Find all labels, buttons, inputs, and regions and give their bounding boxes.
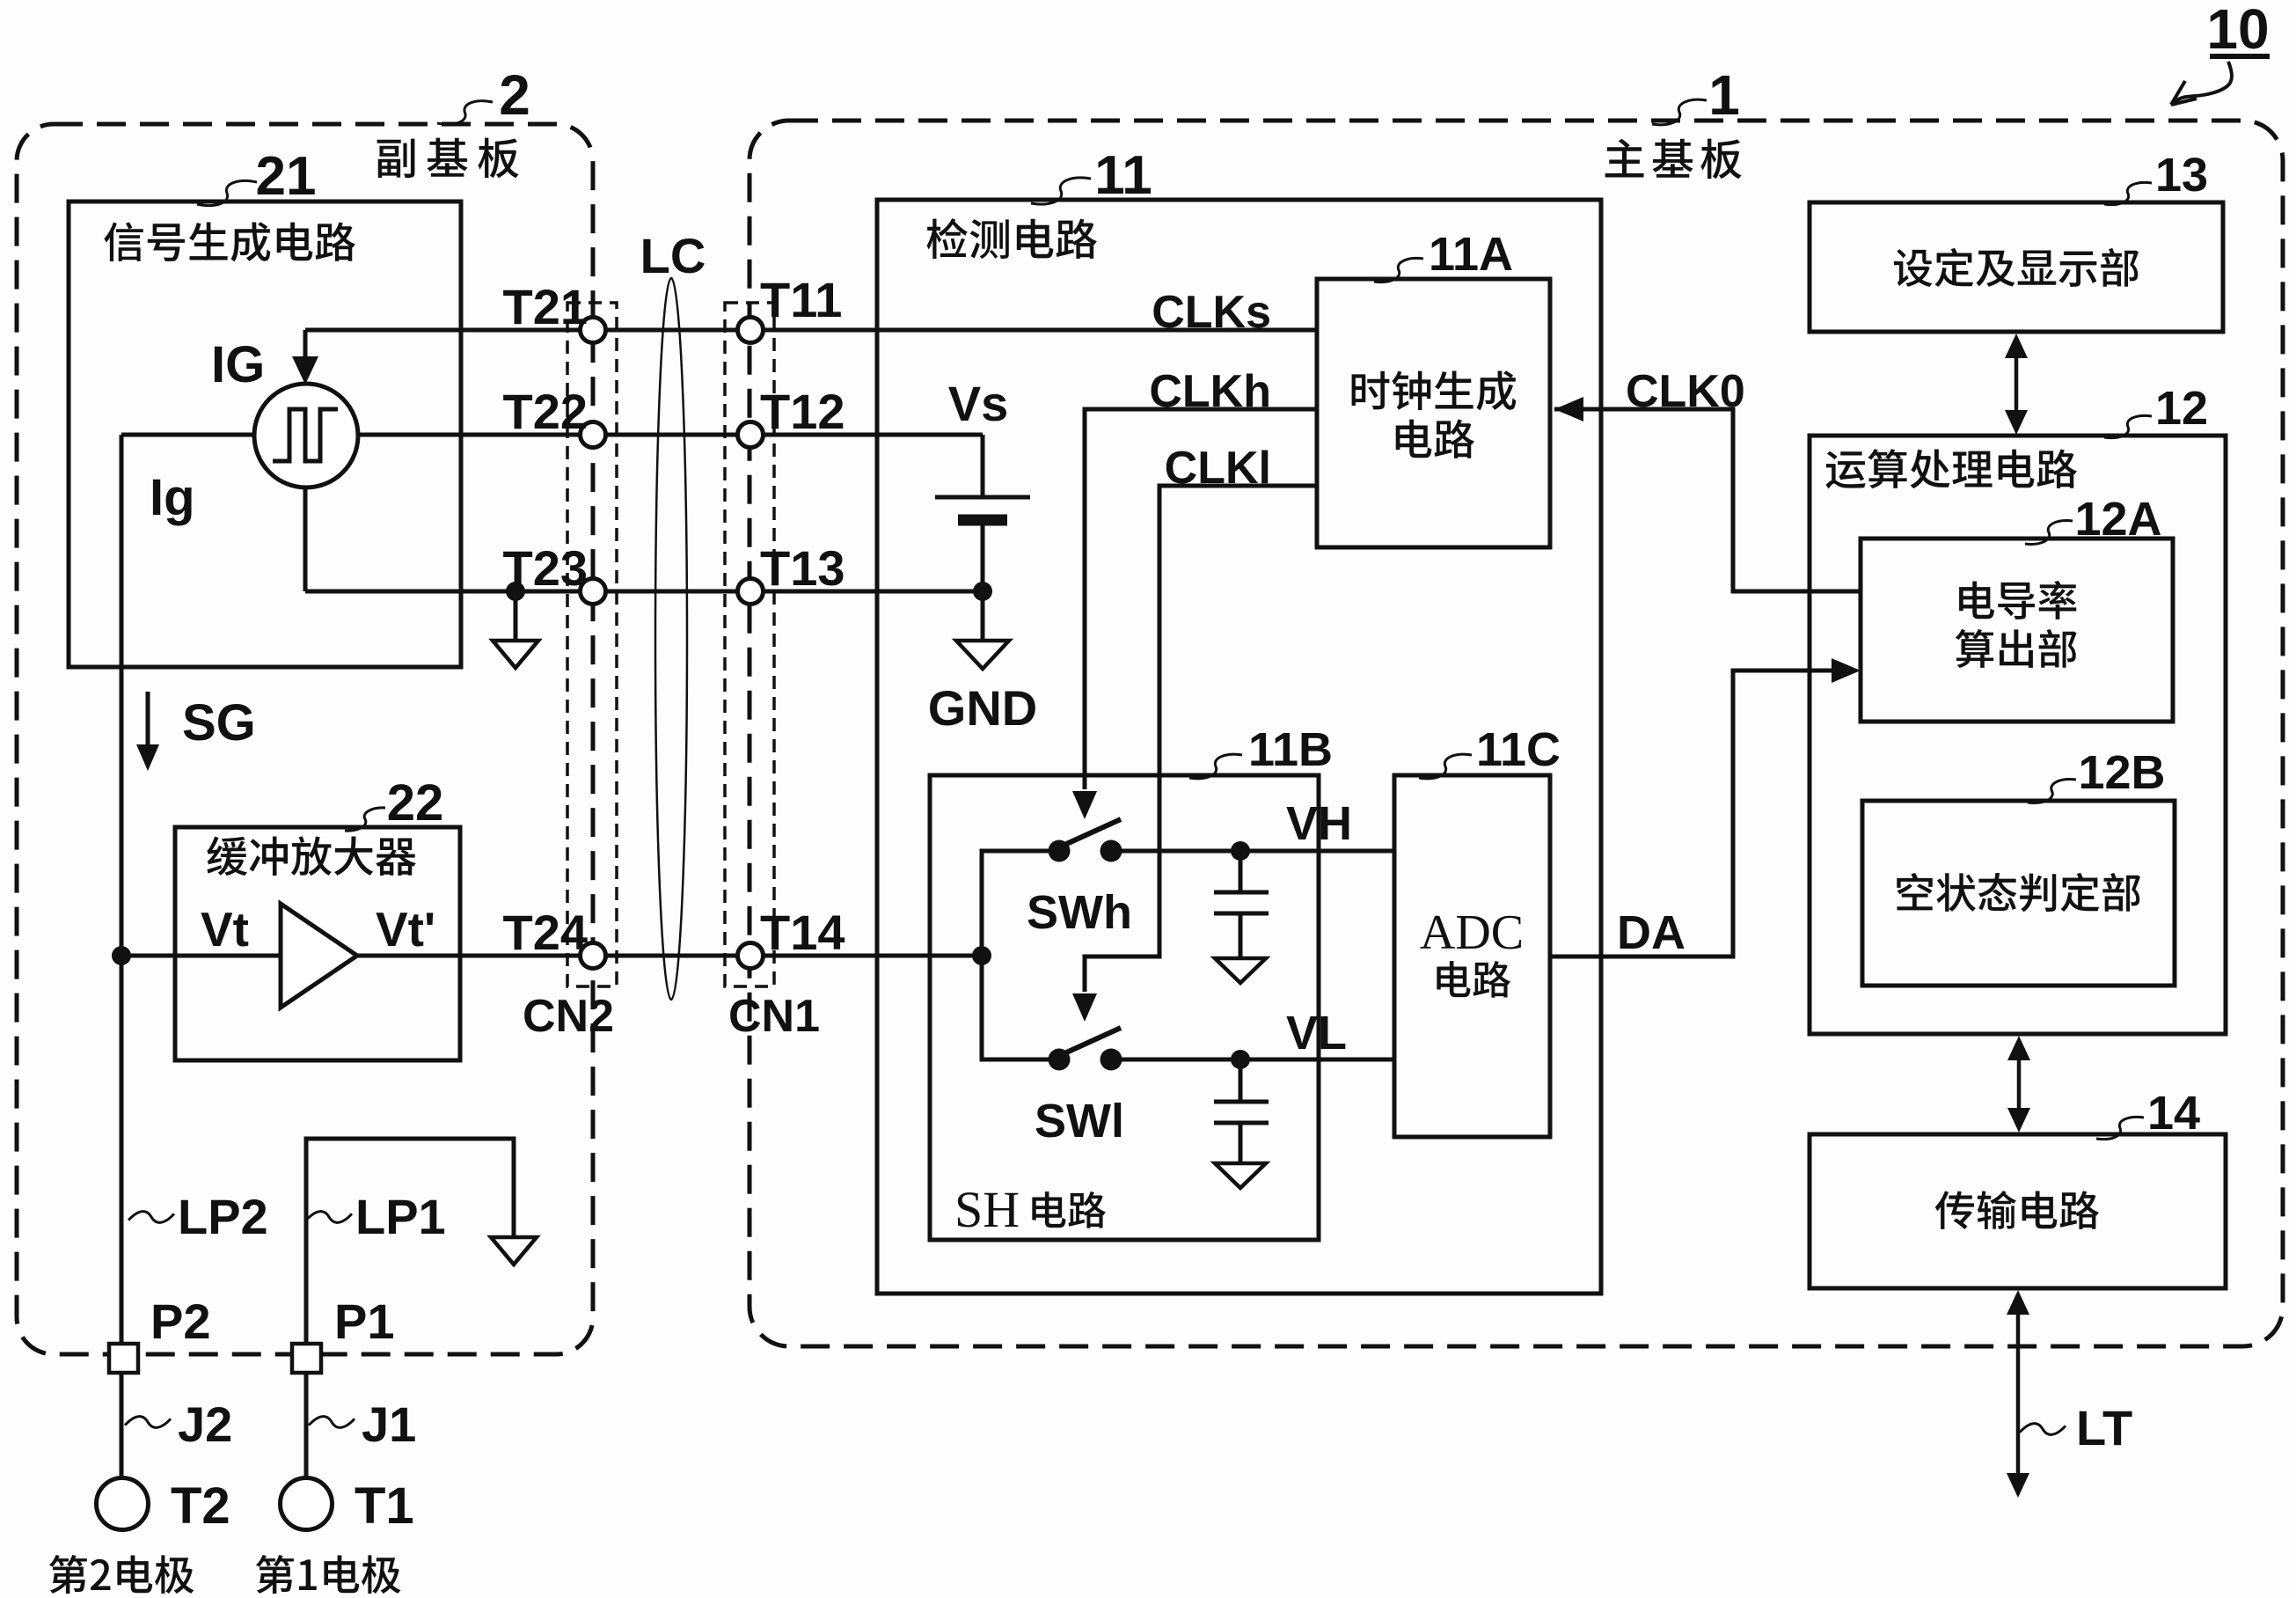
switch SWl: [1049, 1049, 1071, 1071]
label SG with down arrow: [146, 692, 150, 746]
block 21 signal generation circuit (信号生成电路): [69, 202, 461, 667]
svg-text:11C: 11C: [1476, 723, 1561, 776]
label 第2电极 (2nd electrode): [49, 1555, 194, 1594]
svg-text:CLK0: CLK0: [1626, 366, 1745, 417]
terminal T22: [581, 422, 606, 448]
svg-text:CLKh: CLKh: [1149, 366, 1271, 417]
svg-text:T1: T1: [355, 1477, 414, 1535]
svg-text:LP2: LP2: [178, 1189, 268, 1244]
terminal T13: [738, 579, 764, 605]
block 11B sample-hold circuit (SH电路): [930, 775, 1319, 1240]
svg-text:T11: T11: [760, 272, 842, 327]
svg-text:Ig: Ig: [150, 469, 195, 526]
svg-text:T23: T23: [503, 540, 589, 596]
input bracket wire from T14 node to switches: [972, 946, 991, 965]
terminal T12: [738, 422, 764, 448]
svg-text:11: 11: [1094, 145, 1152, 206]
wire row T23/T13 (y=672): [305, 590, 983, 594]
hold capacitor at VH: [1239, 851, 1243, 891]
label 运算处理电路: [1826, 449, 2077, 488]
wire DA from ADC to 12A: [1550, 671, 1847, 957]
svg-text:GND: GND: [928, 680, 1037, 736]
svg-text:Vt': Vt': [376, 902, 435, 957]
switch SWh: [1049, 840, 1071, 862]
svg-text:DA: DA: [1617, 906, 1685, 959]
block 13 setting and display part (设定及显示部): [1810, 202, 2223, 332]
connector CN2 dashed outline: [567, 303, 617, 986]
label 缓冲放大器: [207, 836, 416, 876]
svg-text:T12: T12: [760, 384, 845, 439]
wire IG bottom lead: [303, 487, 308, 591]
label 检测电路: [926, 218, 1097, 259]
svg-text:SG: SG: [182, 694, 256, 751]
block 12A conductivity calculation part (电导率算出部): [1861, 539, 2173, 722]
svg-text:SH: SH: [954, 1181, 1020, 1238]
svg-text:11B: 11B: [1248, 723, 1333, 776]
wire Vt out to T24/T14 (y=1086): [357, 954, 982, 958]
svg-text:T24: T24: [503, 905, 589, 960]
label 信号生成电路: [104, 222, 355, 261]
block 14 transmission circuit (传输电路): [1810, 1134, 2226, 1288]
svg-text:LT: LT: [2076, 1400, 2132, 1455]
svg-text:J1: J1: [362, 1396, 416, 1452]
svg-text:ADC: ADC: [1420, 905, 1524, 960]
svg-text:2: 2: [499, 63, 530, 127]
terminal T24: [581, 943, 606, 969]
ground GND below battery: [981, 591, 985, 641]
svg-text:Vt: Vt: [201, 902, 249, 957]
label 设定及显示部: [1894, 248, 2139, 287]
svg-text:T21: T21: [503, 279, 589, 334]
junction node battery/T13: [973, 582, 992, 601]
svg-text:LP1: LP1: [355, 1189, 446, 1244]
svg-text:22: 22: [387, 774, 444, 832]
svg-text:CLKl: CLKl: [1165, 443, 1271, 494]
connector CN1 dashed outline: [725, 303, 774, 986]
block 11C ADC circuit (ADC电路): [1394, 775, 1550, 1137]
label 电导率 / 算出部: [1959, 581, 2076, 619]
block 11A clock generation circuit (时钟生成电路): [1317, 279, 1550, 547]
wire IG left lead to Ig net: [121, 433, 254, 437]
buffer amplifier triangle: [281, 904, 357, 1008]
ground stub at T23: [506, 582, 525, 601]
svg-text:Vs: Vs: [948, 376, 1009, 431]
terminal T11: [738, 318, 764, 343]
pulse current source IG circle: [254, 384, 358, 487]
svg-text:13: 13: [2155, 149, 2208, 202]
ground below VH capacitor: [1215, 958, 1266, 983]
main-board dashed enclosure 1 (主基板): [749, 121, 2283, 1346]
wire CLKh from 11A: [1085, 409, 1317, 789]
terminal T21: [581, 318, 606, 343]
svg-text:12: 12: [2155, 382, 2208, 435]
net LP2 with tilde label: [128, 1212, 174, 1223]
electrode terminal T2: [97, 1478, 149, 1530]
double arrow between 12 and 14: [2017, 1057, 2022, 1111]
connection point P1 square: [292, 1344, 321, 1373]
node VL: [1231, 1050, 1250, 1069]
double arrow LT below 14: [2016, 1309, 2021, 1477]
svg-text:1: 1: [1708, 63, 1740, 127]
label 传输电路: [1935, 1191, 2099, 1229]
wire CLKl from 11A: [1085, 486, 1317, 992]
wire SWh to VH node and ADC: [1111, 849, 1394, 854]
svg-text:11A: 11A: [1429, 228, 1513, 281]
wire CLK0 into 11A: [1554, 397, 1583, 421]
header label 主基板: [1605, 139, 1742, 180]
sub-board dashed enclosure 2 (副基板): [17, 124, 593, 1354]
electrode terminal T1: [281, 1478, 333, 1530]
svg-text:14: 14: [2147, 1087, 2200, 1140]
Ig vertical net down to P2: [120, 435, 124, 1344]
svg-text:T2: T2: [171, 1477, 230, 1535]
svg-text:SWh: SWh: [1027, 886, 1132, 939]
svg-text:LC: LC: [640, 228, 706, 283]
lead J1 with tilde label: [304, 1373, 309, 1478]
cable LC ellipse: [655, 278, 687, 1000]
arrow into IG from top: [303, 330, 308, 356]
block 22 buffer amplifier (缓冲放大器): [175, 827, 460, 1060]
svg-text:T13: T13: [760, 540, 845, 596]
label 第1电极 (1st electrode): [256, 1555, 401, 1594]
net LP1 with tilde label: [306, 1212, 352, 1223]
svg-text:21: 21: [256, 146, 317, 207]
double arrow between 13 and 12: [2014, 355, 2019, 413]
block 11 detection circuit (检测电路): [877, 200, 1601, 1294]
svg-text:IG: IG: [211, 336, 265, 393]
hold capacitor at VL: [1239, 1059, 1243, 1100]
svg-text:P2: P2: [150, 1294, 211, 1349]
svg-text:10: 10: [2206, 0, 2269, 61]
svg-text:SWl: SWl: [1035, 1095, 1124, 1147]
wire SWl to VL node and ADC: [1111, 1058, 1394, 1062]
pulse waveform glyph inside IG: [273, 409, 338, 461]
ground below VL capacitor: [1215, 1163, 1266, 1188]
svg-text:CLKs: CLKs: [1152, 287, 1271, 338]
svg-text:VH: VH: [1286, 797, 1352, 850]
svg-text:J2: J2: [178, 1396, 232, 1452]
header label 副基板: [377, 138, 519, 179]
label 空状态判定部: [1897, 873, 2140, 912]
wire row T22/T12 to battery (y=494): [358, 433, 983, 437]
svg-text:12B: 12B: [2078, 746, 2165, 799]
label LT with tilde: [2020, 1424, 2066, 1435]
svg-text:P1: P1: [334, 1294, 395, 1349]
junction node at Vt: [112, 946, 131, 965]
label 时钟生成 / 电路: [1352, 370, 1517, 410]
block 12 arithmetic processing circuit (运算处理电路): [1810, 436, 2226, 1034]
wire Vt into buffer: [121, 954, 281, 958]
svg-text:CN2: CN2: [523, 991, 614, 1042]
svg-text:T22: T22: [503, 384, 589, 439]
svg-text:CN1: CN1: [728, 991, 820, 1042]
connection point P2 square: [109, 1344, 138, 1373]
terminal T14: [738, 943, 764, 969]
terminal T23: [581, 579, 606, 605]
svg-text:12A: 12A: [2074, 493, 2161, 546]
lead J2 with tilde label: [120, 1373, 124, 1478]
svg-text:T14: T14: [760, 905, 845, 960]
block 12B empty state determination part (空状态判定部): [1862, 801, 2175, 986]
node VH: [1231, 841, 1250, 861]
wire row T21/CLKs (y=375): [305, 328, 1317, 333]
battery Vs: [981, 435, 985, 495]
probe LP1 ground return wire: [306, 1139, 514, 1344]
svg-text:VL: VL: [1286, 1007, 1347, 1059]
